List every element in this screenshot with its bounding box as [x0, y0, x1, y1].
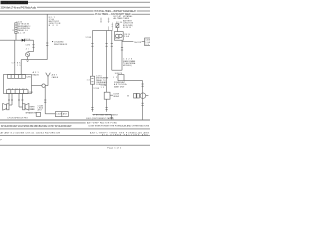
svg-text:19: 19	[17, 65, 20, 67]
svg-text:14: 14	[87, 80, 90, 82]
svg-text:LF DR SPKR LH FRT: LF DR SPKR LH FRT	[8, 118, 29, 120]
svg-text:Ford M365-0W 4TAT: Ford M365-0W 4TAT	[1, 2, 27, 5]
svg-text:ALL TIMES: ALL TIMES	[114, 17, 124, 20]
svg-text:SPEAKER RF: SPEAKER RF	[26, 111, 38, 114]
svg-text:Page 1 of 2: Page 1 of 2	[107, 148, 122, 150]
svg-text:RADIO: RADIO	[33, 73, 40, 76]
svg-text:1030 PK: 1030 PK	[115, 73, 123, 75]
svg-text:JUNCTION: JUNCTION	[49, 23, 61, 25]
svg-text:SP 0126 BK/GMT 2013 SPKR 882 0: SP 0126 BK/GMT 2013 SPKR 882 0863 BK/ORG…	[1, 126, 72, 128]
svg-text:C328 ANT: C328 ANT	[56, 113, 68, 116]
svg-text:8: 8	[13, 30, 14, 32]
svg-text:ILL. 19: ILL. 19	[18, 32, 25, 34]
svg-text:F2.30: F2.30	[116, 22, 122, 24]
svg-text:DONT EVER FORGET THE FORMULAS: DONT EVER FORGET THE FORMULAS AND OTHER …	[89, 125, 150, 128]
svg-text:F2.26 15: F2.26 15	[123, 27, 131, 29]
svg-text:C290: C290	[26, 77, 31, 79]
svg-text:57: 57	[12, 63, 15, 65]
svg-text:D10: D10	[26, 39, 31, 41]
svg-text:C291: C291	[29, 92, 33, 94]
svg-text:CABLE: CABLE	[52, 76, 59, 79]
svg-text:MAST UNIT: MAST UNIT	[114, 85, 125, 88]
svg-text:G301 (INSTRUMENT PANEL): G301 (INSTRUMENT PANEL)	[86, 117, 114, 120]
svg-text:ANT: ANT	[38, 109, 43, 112]
svg-text:HOT AT ALL TIMES — BATTERY SAV: HOT AT ALL TIMES — BATTERY SAVER RELAY	[94, 10, 136, 13]
svg-text:57 BK: 57 BK	[94, 88, 100, 90]
svg-text:2004 Mark LT 4dr and P42 Radi: 2004 Mark LT 4dr and P42 Radio Audio	[1, 6, 37, 9]
svg-text:RIGHT SIDE OF: RIGHT SIDE OF	[54, 44, 68, 46]
svg-text:AT ANT 8.2 026/BK CKT-51 100/6: AT ANT 8.2 026/BK CKT-51 100/64 RD/ORG D…	[1, 131, 61, 134]
svg-text:MODULE): MODULE)	[123, 65, 132, 67]
svg-text:4t: 4t	[26, 47, 30, 50]
svg-text:C270: C270	[26, 44, 31, 46]
svg-text:16 8 14 6 15 7: 16 8 14 6 15 7	[8, 88, 27, 90]
svg-text:AJAR: AJAR	[114, 95, 120, 98]
svg-text:ANT WHIP FACTOR FORD: ANT WHIP FACTOR FORD	[87, 122, 118, 125]
svg-text:57 BK G301 INSTRUMENT: 57 BK G301 INSTRUMENT	[93, 114, 118, 116]
svg-text:19: 19	[101, 87, 104, 89]
svg-text:BIG OTHER FACTORS AND: BIG OTHER FACTORS AND	[102, 133, 149, 136]
svg-text:57 BK: 57 BK	[86, 37, 92, 39]
svg-text:964 RD: 964 RD	[134, 42, 142, 44]
svg-text:DR SPKR: DR SPKR	[30, 109, 36, 111]
